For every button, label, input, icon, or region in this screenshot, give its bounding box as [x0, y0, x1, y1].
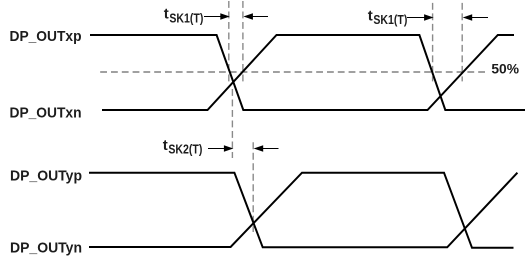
dashed marker line at xn falling 50% crossing (x=432.6)	[432, 3, 434, 82]
arrow right to x=229	[204, 13, 230, 19]
dashed marker line at x-pair crossover (x=232.4)	[231, 89, 233, 158]
dashed marker line at xn rising 50% crossing (x=243)	[242, 1, 244, 81]
dashed marker line at y-pair crossover (x=253.2)	[252, 142, 254, 232]
svg-text:t: t	[368, 8, 373, 25]
dashed marker line at xp rising 50% crossing (x=462.2)	[461, 3, 463, 82]
svg-text:DP_OUTyp: DP_OUTyp	[10, 167, 82, 184]
svg-text:t: t	[163, 137, 168, 154]
svg-text:t: t	[164, 5, 169, 22]
arrow right to x=432.6	[407, 14, 434, 20]
arrow left to x=243	[243, 13, 268, 19]
svg-text:SK1(T): SK1(T)	[373, 13, 407, 27]
svg-text:SK1(T): SK1(T)	[169, 11, 203, 25]
waveform DP_OUTyp	[89, 173, 517, 248]
arrow right to x=232.4	[208, 145, 233, 151]
svg-text:50%: 50%	[491, 62, 519, 78]
svg-text:SK2(T): SK2(T)	[168, 143, 202, 157]
svg-text:DP_OUTxn: DP_OUTxn	[10, 105, 82, 122]
svg-text:DP_OUTyn: DP_OUTyn	[10, 240, 82, 257]
waveform DP_OUTxn	[102, 35, 525, 110]
waveform DP_OUTxp	[90, 35, 514, 110]
arrow left to x=462.2	[463, 14, 488, 20]
50% threshold dashed line	[100, 71, 485, 73]
arrow left to x=253.2	[254, 145, 279, 151]
dashed marker line at xp falling 50% crossing (x=229)	[228, 1, 230, 81]
waveform DP_OUTyn	[89, 173, 514, 248]
svg-text:DP_OUTxp: DP_OUTxp	[10, 28, 82, 45]
